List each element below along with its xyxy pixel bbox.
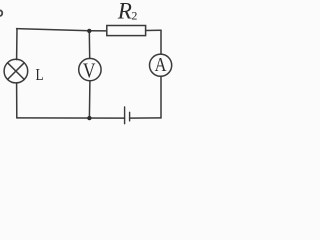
wire top horizontal (corner to junction) — [17, 29, 90, 31]
svg-text:V: V — [83, 60, 96, 83]
wire ammeter bottom to bottom-right corner — [160, 76, 162, 118]
battery long plate (+) — [124, 107, 126, 124]
lamp cross diagonal 2 — [8, 63, 25, 80]
wire voltmeter bottom to bottom junction — [88, 81, 91, 118]
wire resistor right to corner — [146, 29, 161, 31]
lamp cross diagonal 1 — [8, 63, 25, 80]
ammeter U-A circle — [150, 54, 172, 76]
voltmeter circle — [79, 58, 101, 80]
wire bottom right (battery to corner) — [130, 117, 161, 119]
wire right vertical down to ammeter — [160, 30, 162, 54]
svg-text:A: A — [155, 54, 167, 77]
lamp L circle — [4, 59, 28, 83]
wire left vertical (top-left corner down to lamp) — [16, 29, 18, 60]
partial circled label (cut off at left edge) — [0, 10, 2, 16]
node junction bottom — [87, 116, 91, 120]
wire junction to resistor left — [89, 30, 107, 32]
svg-text:2: 2 — [131, 8, 137, 22]
resistor R2 — [107, 26, 146, 36]
wire lamp bottom to bottom-left corner — [16, 83, 18, 118]
svg-text:L: L — [36, 65, 44, 84]
wire voltmeter top (junction down to V) — [88, 31, 90, 59]
battery short plate (-) — [129, 112, 131, 121]
wire bottom left (corner to battery) — [17, 117, 125, 119]
svg-text:R: R — [117, 0, 132, 24]
node junction top — [87, 29, 91, 33]
